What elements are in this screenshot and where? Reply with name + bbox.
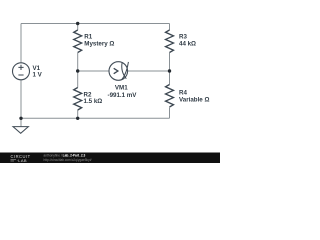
svg-text:Variable Ω: Variable Ω — [179, 96, 209, 103]
svg-text:http://circuitlab.com/c2q/ygae: http://circuitlab.com/c2q/ygae5kyt/ — [44, 158, 92, 162]
svg-text:Mystery Ω: Mystery Ω — [84, 40, 114, 47]
node junction ground-left — [19, 117, 22, 120]
wire right branch upper — [169, 24, 171, 31]
wire ground stub — [20, 118, 22, 126]
svg-text:1.5 kΩ: 1.5 kΩ — [84, 98, 103, 105]
node junction middle (R1/R2/VM1) — [76, 69, 79, 72]
wire voltmeter left — [78, 70, 109, 72]
svg-text:44 kΩ: 44 kΩ — [179, 40, 196, 47]
wire right branch mid — [169, 53, 171, 85]
footer watermark bar — [0, 153, 220, 164]
wire top net — [21, 23, 170, 25]
resistor R4 — [166, 85, 210, 108]
svg-text:-991.1 mV: -991.1 mV — [108, 92, 138, 99]
resistor R1 — [74, 30, 115, 53]
wire voltmeter right — [128, 70, 170, 72]
voltage source V1 — [13, 63, 43, 80]
svg-text:1 V: 1 V — [33, 72, 43, 79]
wire left branch lower — [20, 80, 22, 119]
node junction bottom (R2/bottom net) — [76, 117, 79, 120]
svg-text:anthonyfine / Lab_2-Part_2.3: anthonyfine / Lab_2-Part_2.3 — [44, 153, 86, 157]
ground — [13, 127, 28, 134]
wire middle branch upper — [77, 24, 79, 31]
svg-text:·LAB: ·LAB — [17, 158, 28, 163]
resistor R3 — [166, 30, 197, 53]
wire middle branch lower — [77, 110, 79, 118]
voltmeter VM1 — [108, 62, 138, 99]
wire left branch upper — [20, 24, 22, 63]
node junction top (R1/top net) — [76, 22, 79, 25]
resistor R2 — [74, 88, 103, 111]
wire bottom net — [21, 117, 170, 119]
wire right branch lower — [169, 108, 171, 119]
node junction right (R3/R4/VM1) — [168, 69, 171, 72]
wire middle branch mid — [77, 53, 79, 88]
svg-text:VM1: VM1 — [115, 85, 128, 92]
